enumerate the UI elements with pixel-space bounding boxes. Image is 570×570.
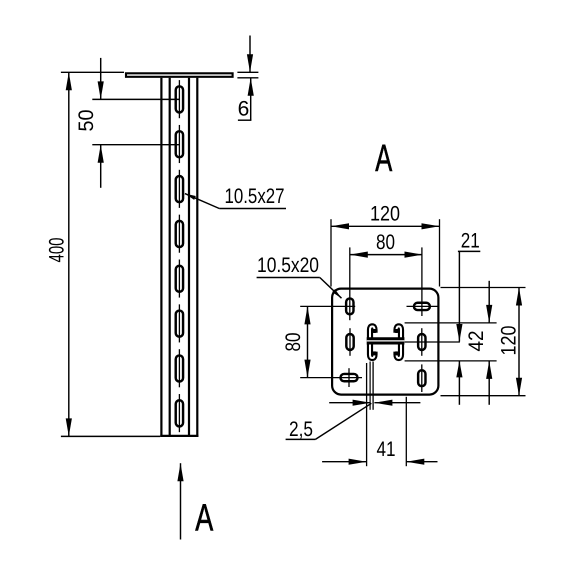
dim 120 top ext left <box>330 219 332 286</box>
dim 21 arrow upper <box>456 324 462 342</box>
dim 6 line lower <box>250 78 252 120</box>
label 10.5x27 leader arrow <box>185 194 196 200</box>
H profile bottom channel <box>370 344 401 358</box>
H profile bottom extension (line C) <box>405 360 497 362</box>
svg-text:120: 120 <box>370 203 400 226</box>
svg-text:120: 120 <box>498 326 521 356</box>
dim 50 extension line upper <box>92 98 180 100</box>
strut slot 1 (10.5x27) <box>176 86 183 112</box>
dim 120 right line <box>518 288 520 396</box>
dim 41 arrow right <box>406 459 424 465</box>
strut inner right line <box>188 78 190 437</box>
H profile lip legs solid <box>373 329 376 333</box>
dim 41 ext left <box>366 363 368 466</box>
svg-text:21: 21 <box>461 230 480 253</box>
svg-text:6: 6 <box>238 98 250 121</box>
head plate outline <box>332 289 438 395</box>
view direction arrow A head <box>177 463 183 481</box>
centerline right column top (80 ext) <box>421 247 423 316</box>
row1 centerline right <box>407 305 440 307</box>
label 10.5x20 leader <box>320 278 342 299</box>
strut outer left wall <box>160 78 162 437</box>
dim 120 top ext right <box>439 219 441 286</box>
dim 41 ext right <box>405 397 407 466</box>
strut slot 8 (10.5x27) <box>176 400 183 426</box>
dim 6 arrow upper <box>247 54 253 72</box>
centerline left column top (80 ext) <box>349 247 351 320</box>
label 10.5x20 underline <box>257 277 320 279</box>
svg-text:A: A <box>195 498 213 540</box>
strut slot 2 (10.5x27) <box>176 131 183 157</box>
strut slot 6 (10.5x27) <box>176 311 183 337</box>
dim 2,5 arrow left <box>353 400 371 406</box>
svg-text:42: 42 <box>465 331 488 352</box>
svg-text:10.5x27: 10.5x27 <box>225 185 285 208</box>
dim 41 line right <box>406 461 437 463</box>
dim 21 underline <box>458 250 480 252</box>
dim 50 line lower <box>100 145 102 188</box>
dim 6 bracket <box>238 119 252 121</box>
dim 42 upper shaft <box>488 281 490 323</box>
dim 21 leader vertical <box>458 251 460 341</box>
view direction arrow A shaft <box>180 463 182 539</box>
strut bottom edge <box>160 435 198 437</box>
dim 400 extension line top <box>61 71 124 73</box>
dim 42 lower shaft <box>488 361 490 405</box>
strut slot 4 (10.5x27) <box>176 221 183 247</box>
plate top extension <box>441 287 526 289</box>
dim 6 extension line lower <box>237 77 258 79</box>
dim 80 left line <box>307 306 309 377</box>
dim 2,5 underline <box>286 438 316 440</box>
svg-text:2,5: 2,5 <box>289 418 313 441</box>
dim 2,5 line right <box>374 402 420 404</box>
plate slot mid-left <box>346 334 353 350</box>
svg-text:41: 41 <box>377 438 396 461</box>
dim 41 arrow left <box>349 459 367 465</box>
H profile top extension (line A) <box>405 322 497 324</box>
dim 42 arrow upper <box>486 305 492 323</box>
plate bottom extension <box>441 395 526 397</box>
dim 80 top arrows <box>350 252 368 258</box>
strut slot 5 (10.5x27) <box>176 266 183 292</box>
centerline bottom-left slot vertical <box>348 368 350 387</box>
centerline right column bottom <box>421 364 423 392</box>
dim 50 line upper <box>100 58 102 100</box>
dim 2,5 leader <box>315 403 371 439</box>
dim 80 left arrows <box>304 306 310 324</box>
H profile web <box>367 337 405 344</box>
dim 120 right arrows <box>516 288 522 306</box>
row1 centerline left (80 ext) <box>300 305 355 307</box>
centerline left column mid <box>349 328 351 356</box>
svg-text:80: 80 <box>376 231 395 254</box>
dim 42 arrow lower <box>486 361 492 379</box>
plate slot mid-right <box>418 334 425 350</box>
plate slot bottom-right <box>418 370 425 386</box>
dim 80 top line <box>350 254 423 256</box>
dim 400 arrow bottom <box>66 418 72 436</box>
dim 50 arrow lower <box>98 145 104 163</box>
plate slot top-left (10.5x20) <box>346 298 353 314</box>
dim 6 extension line upper <box>237 71 258 73</box>
dim 6 arrow lower <box>248 78 254 96</box>
svg-text:A: A <box>375 138 392 180</box>
label 10.5x27 leader shelf <box>219 208 286 210</box>
row3 centerline left (80 ext) <box>300 377 362 379</box>
strut outer right wall <box>196 78 198 437</box>
svg-text:400: 400 <box>46 238 69 263</box>
dim 120 top line <box>331 225 440 227</box>
dim 6 line upper <box>249 36 251 73</box>
label 10.5x20 leader arrow <box>332 289 341 298</box>
svg-text:10.5x20: 10.5x20 <box>257 254 319 277</box>
H profile top channel <box>370 326 401 340</box>
dim 2,5 arrow right <box>374 400 392 406</box>
dim 400 extension line bottom <box>61 435 160 437</box>
svg-text:50: 50 <box>75 110 98 132</box>
dim 120 top arrows <box>331 223 349 229</box>
dim 50 extension line lower <box>92 144 180 146</box>
plate slot bottom-left <box>340 374 357 381</box>
top plate <box>126 73 233 77</box>
strut slot 7 (10.5x27) <box>176 355 183 381</box>
strut slot 3 (10.5x27) <box>176 176 183 202</box>
dim 41 line left <box>322 461 367 463</box>
dim 21 lower shaft <box>458 361 460 405</box>
wall thickness extension lines <box>369 362 371 410</box>
svg-text:80: 80 <box>282 333 305 352</box>
dim 400 line <box>68 72 70 436</box>
row2 centerline right <box>405 341 460 343</box>
dim 400 arrow top <box>66 72 72 90</box>
centerline right column mid <box>421 328 423 356</box>
label 10.5x27 leader diagonal <box>185 194 219 209</box>
dim 50 arrow upper <box>98 81 104 99</box>
dim 21 arrow lower <box>456 361 462 378</box>
strut inner left line <box>169 78 171 437</box>
dim 2,5 line left <box>329 402 370 404</box>
plate slot top-right <box>414 303 430 310</box>
